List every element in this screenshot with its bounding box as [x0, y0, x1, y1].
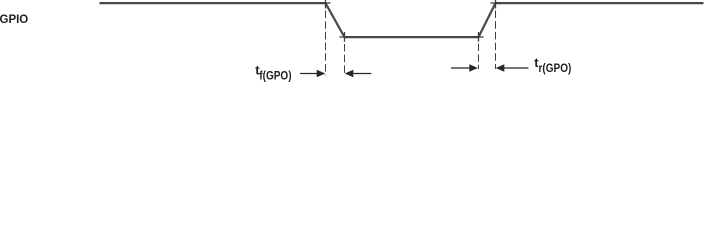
svg-text:GPIO: GPIO — [0, 14, 28, 26]
svg-text:f(GPO): f(GPO) — [259, 70, 292, 83]
svg-text:r(GPO): r(GPO) — [539, 62, 572, 75]
